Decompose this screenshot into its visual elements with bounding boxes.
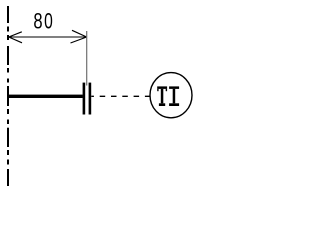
centerline (vertical phantom line) <box>7 6 9 186</box>
letter I: bottom serif <box>169 103 179 106</box>
svg-text:0: 0 <box>44 10 53 34</box>
letter T: right tick <box>166 89 167 91</box>
right arrowhead <box>71 30 87 43</box>
extension line (grey) <box>86 31 88 86</box>
instrument lead (dashed) <box>91 95 149 97</box>
letter T: bottom serif <box>159 103 165 106</box>
probe line (thick) <box>8 95 83 98</box>
instrument balloon circle <box>150 73 192 118</box>
dimension text 80 <box>33 9 42 34</box>
dimension line <box>9 36 87 38</box>
letter T: stem <box>161 89 164 103</box>
balloon text TI <box>157 86 179 106</box>
left arrowhead <box>9 32 22 43</box>
letter T: top bar <box>157 86 167 89</box>
letter I: stem <box>173 89 176 103</box>
letter T: left tick <box>157 89 158 91</box>
thermowell bar 2 <box>89 83 92 115</box>
letter I: top serif <box>169 86 179 89</box>
thermowell bar 1 <box>83 83 86 115</box>
svg-text:8: 8 <box>33 9 42 34</box>
